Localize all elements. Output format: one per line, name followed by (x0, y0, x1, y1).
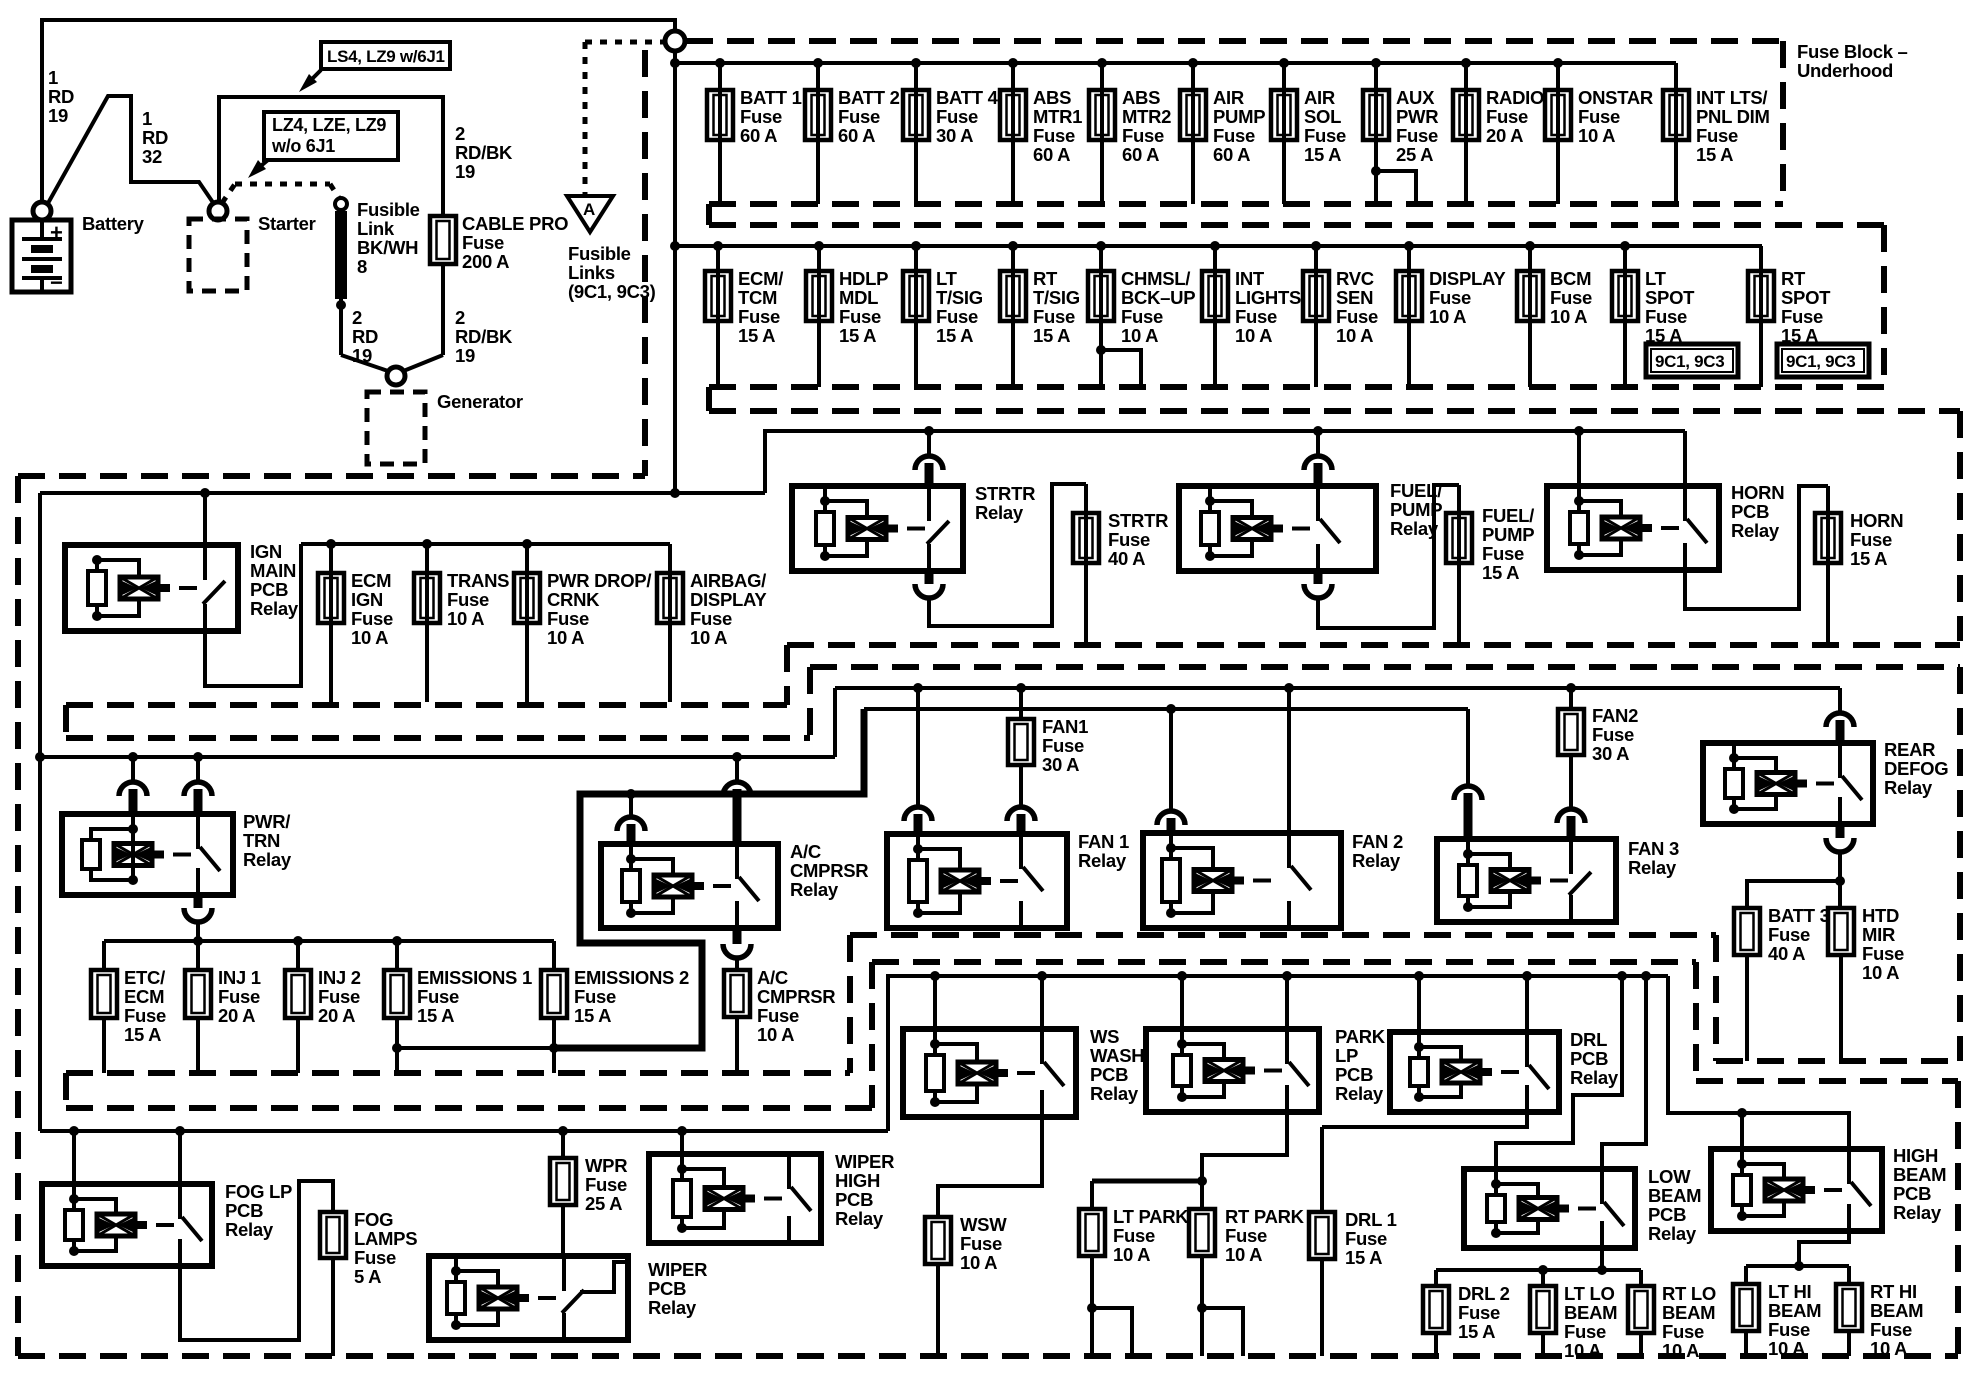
svg-text:20 A: 20 A (1486, 125, 1523, 146)
svg-text:Relay: Relay (1731, 520, 1780, 541)
node starter terminal (209, 202, 227, 220)
svg-text:Relay: Relay (250, 598, 299, 619)
svg-text:Fuse: Fuse (1768, 924, 1810, 945)
svg-text:LIGHTS: LIGHTS (1235, 287, 1301, 308)
svg-text:Relay: Relay (1648, 1223, 1697, 1244)
svg-text:RD: RD (352, 326, 378, 347)
svg-text:10 A: 10 A (1113, 1244, 1150, 1265)
svg-text:Fuse: Fuse (1033, 306, 1075, 327)
svg-text:Fuse: Fuse (354, 1247, 396, 1268)
svg-text:LT: LT (1645, 268, 1667, 289)
node battery terminal (33, 202, 51, 220)
relay FAN 1 (913, 683, 923, 693)
svg-text:25 A: 25 A (1396, 144, 1433, 165)
wire rear defog output (1836, 824, 1845, 838)
svg-text:RD/BK: RD/BK (455, 142, 513, 163)
fuse ABS MTR1 (1008, 58, 1018, 68)
svg-text:Fuse: Fuse (318, 986, 360, 1007)
relay DRL PCB (1414, 971, 1424, 981)
svg-text:INJ 1: INJ 1 (218, 967, 261, 988)
svg-text:BCK–UP: BCK–UP (1121, 287, 1195, 308)
fuse HORN 15A (1826, 486, 1830, 645)
svg-text:PWR DROP/: PWR DROP/ (547, 570, 651, 591)
svg-text:10 A: 10 A (1662, 1340, 1699, 1361)
svg-text:Fuse: Fuse (1345, 1228, 1387, 1249)
svg-text:AIR: AIR (1304, 87, 1335, 108)
dashed fan section (1716, 1058, 1960, 1064)
svg-text:15 A: 15 A (1458, 1321, 1495, 1342)
svg-text:BEAM: BEAM (1893, 1164, 1946, 1185)
svg-text:DRL 2: DRL 2 (1458, 1283, 1510, 1304)
svg-text:Relay: Relay (1390, 518, 1439, 539)
svg-text:IGN: IGN (351, 589, 383, 610)
svg-text:BK/WH: BK/WH (357, 237, 418, 258)
bus fan lower (864, 707, 1468, 711)
svg-text:10 A: 10 A (690, 627, 727, 648)
svg-text:19: 19 (48, 105, 68, 126)
svg-text:19: 19 (455, 161, 475, 182)
svg-text:REAR: REAR (1884, 739, 1935, 760)
svg-text:Fuse: Fuse (1121, 306, 1163, 327)
svg-text:20 A: 20 A (218, 1005, 255, 1026)
svg-text:10 A: 10 A (1121, 325, 1158, 346)
svg-text:15 A: 15 A (1033, 325, 1070, 346)
svg-text:10 A: 10 A (1564, 1340, 1601, 1361)
fuse WPR 25A (558, 1126, 568, 1136)
svg-text:PCB: PCB (835, 1189, 873, 1210)
svg-text:PARK: PARK (1335, 1026, 1386, 1047)
wire ws wash output (938, 1117, 1042, 1217)
svg-text:STRTR: STRTR (975, 483, 1035, 504)
svg-text:HORN: HORN (1850, 510, 1903, 531)
svg-text:Link: Link (357, 218, 395, 239)
fuse STRTR 40A (1084, 484, 1088, 645)
relay WIPER PCB (429, 1256, 628, 1340)
svg-text:PCB: PCB (250, 579, 288, 600)
svg-text:RADIO: RADIO (1486, 87, 1544, 108)
svg-text:Fuse: Fuse (936, 306, 978, 327)
fuse LT PARK 10A (1090, 1181, 1094, 1209)
svg-text:INT LTS/: INT LTS/ (1696, 87, 1767, 108)
svg-text:CMPRSR: CMPRSR (757, 986, 835, 1007)
svg-text:RD: RD (142, 127, 168, 148)
fuse LT SPOT (1620, 241, 1630, 251)
svg-text:BATT 4: BATT 4 (936, 87, 999, 108)
fuse EMISSIONS 1 (392, 936, 402, 946)
svg-text:Fuse: Fuse (1768, 1319, 1810, 1340)
svg-text:Fuse: Fuse (574, 986, 616, 1007)
svg-text:20 A: 20 A (318, 1005, 355, 1026)
bus park fuses (1092, 1179, 1202, 1184)
svg-text:10 A: 10 A (1235, 325, 1272, 346)
fuse LT HI BEAM 10A (1744, 1266, 1748, 1284)
fuse HDLP MDL (814, 241, 824, 251)
svg-text:9C1, 9C3: 9C1, 9C3 (1655, 352, 1724, 371)
svg-text:15 A: 15 A (936, 325, 973, 346)
starter box (189, 219, 247, 291)
label LZ4 note box (264, 112, 398, 160)
svg-text:Fuse: Fuse (936, 106, 978, 127)
relay FAN 3 (1466, 709, 1470, 787)
svg-text:10 A: 10 A (1550, 306, 1587, 327)
svg-text:Fuse: Fuse (1113, 1225, 1155, 1246)
svg-text:CABLE PRO: CABLE PRO (462, 213, 568, 234)
svg-text:40 A: 40 A (1108, 548, 1145, 569)
svg-text:RT: RT (1033, 268, 1058, 289)
svg-text:BEAM: BEAM (1870, 1300, 1923, 1321)
svg-text:RT PARK: RT PARK (1225, 1206, 1305, 1227)
svg-text:Fuse: Fuse (1429, 287, 1471, 308)
relay WS WASH PCB (930, 971, 940, 981)
bus hi beam fuses (1746, 1264, 1849, 1268)
svg-text:TCM: TCM (738, 287, 777, 308)
svg-text:PCB: PCB (1570, 1048, 1608, 1069)
fuse TRANS (422, 539, 432, 549)
fuse AUX PWR (1371, 58, 1381, 68)
dashed underhood main outline (709, 408, 1960, 414)
bus fan upper (835, 686, 1840, 690)
svg-text:PCB: PCB (1335, 1064, 1373, 1085)
svg-text:Fuse: Fuse (124, 1005, 166, 1026)
svg-text:30 A: 30 A (1592, 743, 1629, 764)
svg-text:32: 32 (142, 146, 162, 167)
svg-text:Fuse: Fuse (738, 306, 780, 327)
svg-text:Relay: Relay (1090, 1083, 1139, 1104)
svg-text:60 A: 60 A (1213, 144, 1250, 165)
svg-text:Battery: Battery (82, 213, 145, 234)
svg-text:Fuse: Fuse (462, 232, 504, 253)
bus ws wash section (888, 976, 1668, 1131)
svg-text:30 A: 30 A (1042, 754, 1079, 775)
fuse ECM/ TCM (713, 241, 723, 251)
svg-text:19: 19 (352, 345, 372, 366)
svg-text:Fuse: Fuse (838, 106, 880, 127)
fuse DRL 2 15A (1434, 1270, 1438, 1286)
svg-text:5 A: 5 A (354, 1266, 381, 1287)
fuse LT LO BEAM 10A (1541, 1270, 1545, 1286)
svg-text:10 A: 10 A (1578, 125, 1615, 146)
svg-text:15 A: 15 A (839, 325, 876, 346)
svg-text:2: 2 (455, 123, 465, 144)
bus ecm ign (301, 542, 670, 546)
relay FUEL PUMP (1313, 426, 1323, 436)
svg-text:Fuse: Fuse (1336, 306, 1378, 327)
relay AC CMPRSR (732, 752, 742, 762)
svg-text:ECM: ECM (351, 570, 391, 591)
svg-text:Relay: Relay (1352, 850, 1401, 871)
svg-text:AUX: AUX (1396, 87, 1435, 108)
svg-text:LOW: LOW (1648, 1166, 1691, 1187)
svg-text:MTR2: MTR2 (1122, 106, 1171, 127)
svg-text:200 A: 200 A (462, 251, 509, 272)
fuse HTD MIR 10A (1828, 908, 1854, 955)
wire drl output (1322, 1112, 1527, 1127)
svg-text:T/SIG: T/SIG (1033, 287, 1080, 308)
svg-text:Fuse: Fuse (351, 608, 393, 629)
relay FOG LP PCB (69, 1126, 79, 1136)
wire low beam output (1600, 1248, 1604, 1270)
svg-text:9C1, 9C3: 9C1, 9C3 (1786, 352, 1855, 371)
svg-text:Fuse: Fuse (1108, 529, 1150, 550)
battery B1 (12, 220, 71, 292)
svg-text:60 A: 60 A (838, 125, 875, 146)
svg-text:LT LO: LT LO (1564, 1283, 1615, 1304)
wire battery feed top (42, 20, 675, 202)
svg-text:Relay: Relay (1628, 857, 1677, 878)
fuse CHMSL/ BCK–UP (1096, 241, 1106, 251)
svg-text:Fuse: Fuse (1396, 125, 1438, 146)
svg-text:2: 2 (455, 307, 465, 328)
svg-text:Fuse: Fuse (1213, 125, 1255, 146)
svg-text:HORN: HORN (1731, 482, 1784, 503)
fuse AIRBAG/ DISPLAY (668, 544, 672, 702)
svg-text:10 A: 10 A (757, 1024, 794, 1045)
fuse WSW 10A (925, 1217, 951, 1264)
svg-text:w/o 6J1: w/o 6J1 (271, 136, 335, 156)
svg-text:Fuse: Fuse (690, 608, 732, 629)
fuse RT SPOT (1759, 246, 1763, 387)
fuse FOG LAMPS 5A (320, 1212, 346, 1258)
fuse RADIO (1461, 58, 1471, 68)
svg-text:+: + (50, 220, 63, 245)
fusible links triangle A (567, 196, 613, 232)
fuse INJ 1 (196, 941, 200, 970)
svg-text:MDL: MDL (839, 287, 878, 308)
svg-text:PCB: PCB (648, 1278, 686, 1299)
svg-text:PCB: PCB (1090, 1064, 1128, 1085)
svg-text:SPOT: SPOT (1781, 287, 1831, 308)
svg-text:Relay: Relay (790, 879, 839, 900)
svg-text:Fuse: Fuse (1235, 306, 1277, 327)
svg-text:WIPER: WIPER (835, 1151, 894, 1172)
wire fog output (180, 1181, 333, 1340)
label LS4 note box (321, 42, 450, 69)
svg-text:MIR: MIR (1862, 924, 1895, 945)
fuse PWR DROP/ CRNK (522, 539, 532, 549)
dashed relay band 1 (787, 642, 1960, 648)
svg-text:HIGH: HIGH (1893, 1145, 1938, 1166)
fuse RT LO BEAM 10A (1639, 1270, 1643, 1286)
svg-text:DRL 1: DRL 1 (1345, 1209, 1397, 1230)
svg-text:WIPER: WIPER (648, 1259, 707, 1280)
svg-text:19: 19 (455, 345, 475, 366)
svg-text:HDLP: HDLP (839, 268, 888, 289)
svg-text:Fuse: Fuse (1122, 125, 1164, 146)
svg-text:RD: RD (48, 86, 74, 107)
fuse EMISSIONS 2 (552, 941, 556, 970)
svg-text:Fuse: Fuse (1042, 735, 1084, 756)
relay LOW BEAM PCB (1617, 971, 1627, 981)
svg-text:Fuse Block –: Fuse Block – (1797, 41, 1908, 62)
svg-text:Relay: Relay (1335, 1083, 1384, 1104)
bus pwr trn (40, 755, 835, 759)
svg-text:HIGH: HIGH (835, 1170, 880, 1191)
svg-text:ONSTAR: ONSTAR (1578, 87, 1653, 108)
node generator terminal (387, 367, 405, 385)
wire battery to starter (47, 96, 214, 205)
svg-text:BATT 2: BATT 2 (838, 87, 900, 108)
svg-text:TRN: TRN (243, 830, 280, 851)
svg-text:Relay: Relay (1893, 1202, 1942, 1223)
svg-text:60 A: 60 A (1122, 144, 1159, 165)
svg-text:WS: WS (1090, 1026, 1119, 1047)
svg-text:1: 1 (48, 67, 58, 88)
fuse RT HI BEAM 10A (1847, 1266, 1851, 1284)
svg-text:RT HI: RT HI (1870, 1281, 1917, 1302)
svg-text:−: − (50, 270, 63, 295)
svg-text:BEAM: BEAM (1768, 1300, 1821, 1321)
relay PWR TRN (128, 752, 138, 762)
wire starter riser to cable (219, 97, 443, 216)
svg-text:IGN: IGN (250, 541, 282, 562)
dashed fuse block row2 (706, 204, 712, 225)
relay IGN MAIN PCB (200, 488, 210, 498)
svg-text:DRL: DRL (1570, 1029, 1607, 1050)
fuse BATT 3 40A (1747, 881, 1840, 908)
svg-text:RD/BK: RD/BK (455, 326, 513, 347)
svg-text:Fusible: Fusible (568, 243, 631, 264)
svg-text:15 A: 15 A (417, 1005, 454, 1026)
svg-text:10 A: 10 A (1768, 1338, 1805, 1359)
svg-text:BATT 3: BATT 3 (1768, 905, 1830, 926)
svg-text:FAN 2: FAN 2 (1352, 831, 1403, 852)
dashed ws wash section (872, 959, 1696, 965)
svg-text:30 A: 30 A (936, 125, 973, 146)
svg-text:10 A: 10 A (1870, 1338, 1907, 1359)
svg-text:A/C: A/C (790, 841, 821, 862)
wire high beam output (1799, 1231, 1849, 1266)
fuse AIR PUMP (1188, 58, 1198, 68)
svg-text:TRANS: TRANS (447, 570, 509, 591)
relay FAN 2 (1166, 704, 1176, 714)
wire emissions crossover (392, 1043, 402, 1053)
svg-text:Fuse: Fuse (1870, 1319, 1912, 1340)
wire ac output (733, 928, 742, 944)
svg-text:Fuse: Fuse (1662, 1321, 1704, 1342)
fuse RVC SEN (1311, 241, 1321, 251)
fuse FAN2 30A (1566, 683, 1576, 693)
svg-text:MTR1: MTR1 (1033, 106, 1082, 127)
wire dotted starter jumper (222, 184, 235, 203)
svg-text:Fuse: Fuse (1033, 125, 1075, 146)
bus engine fuses (104, 939, 554, 943)
svg-text:Fuse: Fuse (218, 986, 260, 1007)
svg-text:LT HI: LT HI (1768, 1281, 1811, 1302)
svg-text:15 A: 15 A (1482, 562, 1519, 583)
svg-text:EMISSIONS 2: EMISSIONS 2 (574, 967, 689, 988)
svg-text:25 A: 25 A (585, 1193, 622, 1214)
svg-text:BCM: BCM (1550, 268, 1591, 289)
svg-text:LP: LP (1335, 1045, 1358, 1066)
svg-text:SPOT: SPOT (1645, 287, 1695, 308)
svg-text:2: 2 (352, 307, 362, 328)
wire feed C-path to AC bus (554, 709, 864, 1048)
svg-text:1: 1 (142, 108, 152, 129)
svg-text:Fuse: Fuse (1781, 306, 1823, 327)
fuse AIR SOL (1279, 58, 1289, 68)
svg-text:Fuse: Fuse (417, 986, 459, 1007)
svg-text:INJ 2: INJ 2 (318, 967, 361, 988)
svg-text:FAN2: FAN2 (1592, 705, 1638, 726)
fuse BATT 1 (715, 58, 725, 68)
svg-text:Relay: Relay (1884, 777, 1933, 798)
wire cable pro to generator (441, 264, 445, 355)
svg-text:Relay: Relay (835, 1208, 884, 1229)
svg-text:LAMPS: LAMPS (354, 1228, 417, 1249)
generator box (367, 392, 425, 464)
wire horn output (1685, 486, 1828, 609)
svg-text:SOL: SOL (1304, 106, 1341, 127)
svg-text:10 A: 10 A (1225, 1244, 1262, 1265)
svg-text:60 A: 60 A (740, 125, 777, 146)
svg-text:ABS: ABS (1122, 87, 1160, 108)
wire dotted to triangle (585, 40, 664, 45)
bus fog section (40, 1129, 888, 1133)
svg-text:Fuse: Fuse (1696, 125, 1738, 146)
svg-text:AIR: AIR (1213, 87, 1244, 108)
node fusible link terminal (335, 198, 347, 210)
fuse RT PARK 10A (1200, 1181, 1204, 1209)
svg-text:CMPRSR: CMPRSR (790, 860, 868, 881)
svg-text:STRTR: STRTR (1108, 510, 1168, 531)
svg-text:10 A: 10 A (1336, 325, 1373, 346)
wire link to generator (341, 355, 391, 372)
svg-text:T/SIG: T/SIG (936, 287, 983, 308)
svg-text:Underhood: Underhood (1797, 60, 1893, 81)
svg-text:DEFOG: DEFOG (1884, 758, 1948, 779)
svg-text:Fuse: Fuse (1482, 543, 1524, 564)
svg-text:Fuse: Fuse (1578, 106, 1620, 127)
svg-text:Fuse: Fuse (1550, 287, 1592, 308)
svg-text:Links: Links (568, 262, 615, 283)
svg-text:PCB: PCB (225, 1200, 263, 1221)
fuse INJ 2 (293, 936, 303, 946)
svg-text:10 A: 10 A (1862, 962, 1899, 983)
svg-text:SEN: SEN (1336, 287, 1373, 308)
svg-text:15 A: 15 A (738, 325, 775, 346)
svg-text:RVC: RVC (1336, 268, 1374, 289)
svg-text:Fuse: Fuse (547, 608, 589, 629)
svg-text:MAIN: MAIN (250, 560, 296, 581)
svg-text:ETC/: ETC/ (124, 967, 165, 988)
fuse FAN1 30A (1016, 683, 1026, 693)
arrow LZ4 (256, 160, 268, 170)
relay STRTR (924, 426, 934, 436)
label 9C1 9C3 RT (1777, 344, 1869, 377)
arrow LS4 (307, 70, 321, 84)
svg-text:10 A: 10 A (960, 1252, 997, 1273)
svg-text:Relay: Relay (1078, 850, 1127, 871)
fuse DRL 1 15A (1320, 1127, 1324, 1212)
svg-text:FUEL/: FUEL/ (1482, 505, 1534, 526)
relay WIPER HIGH PCB (677, 1126, 687, 1136)
svg-text:FOG LP: FOG LP (225, 1181, 292, 1202)
svg-text:Fuse: Fuse (1592, 724, 1634, 745)
fusible link BK/WH (335, 211, 347, 299)
svg-text:BEAM: BEAM (1564, 1302, 1617, 1323)
svg-text:RT: RT (1781, 268, 1806, 289)
svg-text:WASH: WASH (1090, 1045, 1144, 1066)
svg-text:WPR: WPR (585, 1155, 627, 1176)
fuse ECM IGN (326, 539, 336, 549)
svg-text:LS4, LZ9 w/6J1: LS4, LZ9 w/6J1 (327, 47, 445, 66)
svg-text:8: 8 (357, 256, 367, 277)
svg-text:Fuse: Fuse (839, 306, 881, 327)
svg-text:PWR: PWR (1396, 106, 1438, 127)
fuse ETC/ (102, 941, 106, 970)
wire strtr output (925, 571, 934, 584)
svg-text:FAN1: FAN1 (1042, 716, 1088, 737)
